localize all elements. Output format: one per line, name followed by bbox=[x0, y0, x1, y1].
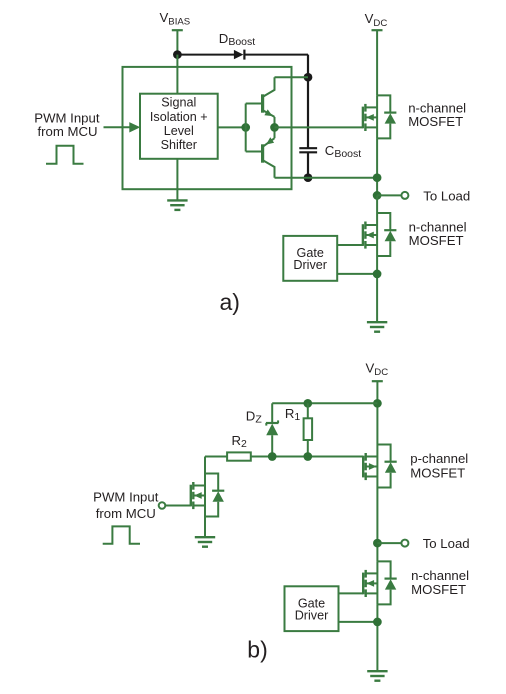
wire black D_Boost to corner bbox=[244, 54, 308, 56]
capacitor C_Boost bbox=[299, 148, 317, 152]
wire V_DC rail (a) bbox=[376, 30, 378, 95]
Q2 emitter bbox=[264, 127, 275, 146]
svg-text:R1: R1 bbox=[285, 406, 301, 423]
net label V_BIAS bbox=[160, 10, 191, 28]
wire black node to cap bbox=[307, 77, 309, 148]
wire gate driver to source node bbox=[337, 273, 377, 275]
label R1 bbox=[285, 406, 301, 423]
diode D_Boost bbox=[234, 50, 245, 60]
V_BIAS terminal bar bbox=[172, 29, 183, 31]
svg-text:DZ: DZ bbox=[246, 409, 263, 426]
label PWM Input from MCU (b) bbox=[93, 490, 159, 521]
junction dot M2 source bbox=[373, 270, 382, 279]
junction dot emitter node B bbox=[270, 123, 279, 132]
junction dot to-load node (a) bbox=[373, 191, 382, 200]
V_DC terminal bar (b) bbox=[372, 380, 383, 382]
wire M2 source to ground bbox=[376, 256, 378, 322]
label M2 n-channel MOSFET bbox=[409, 220, 467, 249]
mosfet M5 n-channel low-side (b) bbox=[363, 561, 397, 604]
svg-text:from MCU: from MCU bbox=[96, 506, 156, 521]
transistor Q1 NPN bar bbox=[261, 94, 264, 112]
pwm pulse symbol (b) bbox=[103, 526, 140, 543]
wire V_DC rail (b) bbox=[376, 381, 378, 444]
label R2 bbox=[232, 433, 248, 450]
svg-text:MOSFET: MOSFET bbox=[411, 582, 466, 597]
junction dot V_BIAS node bbox=[173, 50, 182, 59]
block gate driver (a) bbox=[283, 236, 337, 281]
wire R2 to M4 drain bbox=[204, 457, 206, 474]
resistor R2 bbox=[227, 452, 251, 460]
label D_Z bbox=[246, 409, 263, 426]
label b) bbox=[247, 637, 267, 663]
svg-text:VDC: VDC bbox=[365, 11, 388, 29]
Q1 collector bbox=[264, 77, 275, 96]
svg-text:To Load: To Load bbox=[423, 189, 470, 204]
label M1 n-channel MOSFET bbox=[408, 101, 466, 129]
Q2 collector bbox=[264, 161, 275, 178]
svg-text:VDC: VDC bbox=[366, 361, 389, 379]
svg-text:Signal: Signal bbox=[161, 96, 196, 110]
junction dot R1 top bbox=[303, 399, 312, 408]
svg-text:n-channel: n-channel bbox=[411, 568, 469, 583]
block U1 Signal Isolation + Level Shifter bbox=[140, 94, 218, 159]
junction dot to-load node (b) bbox=[373, 539, 382, 548]
wire M4 source to ground bbox=[204, 517, 206, 538]
junction dot M5 source bbox=[373, 618, 382, 627]
wire gate driver to M2 gate bbox=[337, 244, 363, 246]
wire PWM input (a) bbox=[104, 126, 131, 128]
label a) bbox=[220, 289, 240, 315]
wire M3 source to load rail bbox=[376, 488, 378, 562]
wire black to D_Boost bbox=[177, 54, 234, 56]
wire V_BIAS stub bbox=[176, 30, 178, 54]
svg-text:Level: Level bbox=[164, 124, 194, 138]
wire gate driver to M5 gate bbox=[339, 592, 364, 594]
label M3 p-channel MOSFET bbox=[410, 451, 468, 481]
label To Load (a) bbox=[423, 189, 470, 204]
block gate driver (b) bbox=[285, 586, 339, 631]
svg-text:MOSFET: MOSFET bbox=[410, 466, 465, 481]
svg-text:To Load: To Load bbox=[423, 536, 470, 551]
wire gate row (b) bbox=[205, 456, 363, 458]
wire boost bottom to source rail bbox=[308, 177, 377, 179]
svg-text:DBoost: DBoost bbox=[219, 31, 255, 48]
wire M5 source to ground bbox=[376, 604, 378, 671]
ground main (a) bbox=[367, 322, 387, 332]
svg-text:PWM Input: PWM Input bbox=[93, 490, 159, 505]
wire V_BIAS to U1 bbox=[176, 55, 178, 94]
transistor Q2 PNP bar bbox=[261, 144, 264, 162]
net label V_DC (b) bbox=[366, 361, 389, 379]
svg-text:Isolation +: Isolation + bbox=[150, 110, 208, 124]
mosfet M3 p-channel high-side bbox=[363, 445, 397, 488]
wire gate driver to M5 source node bbox=[339, 621, 378, 623]
junction dot DZ anode bbox=[268, 452, 277, 461]
svg-text:MOSFET: MOSFET bbox=[409, 233, 464, 248]
svg-text:Driver: Driver bbox=[293, 258, 327, 272]
svg-text:from MCU: from MCU bbox=[37, 124, 97, 139]
junction dot boost bottom bbox=[304, 173, 313, 182]
ground main (b) bbox=[367, 671, 387, 681]
wire to load stub (b) bbox=[377, 542, 401, 544]
svg-text:a): a) bbox=[220, 289, 240, 315]
svg-text:Shifter: Shifter bbox=[161, 138, 197, 152]
arrowhead into U1 bbox=[129, 122, 140, 132]
Q1 emitter bbox=[264, 109, 275, 127]
label To Load (b) bbox=[423, 536, 470, 551]
wire Q2 collector to boost bottom bbox=[275, 177, 309, 179]
mosfet M2 n-channel low-side (a) bbox=[363, 213, 397, 256]
V_DC terminal bar (a) bbox=[372, 29, 383, 31]
svg-text:CBoost: CBoost bbox=[325, 143, 361, 160]
terminal circle To Load (a) bbox=[401, 192, 408, 199]
wire load node to M2 bbox=[376, 195, 378, 213]
wire black cap to bottom node bbox=[307, 152, 309, 177]
pwm pulse symbol (a) bbox=[46, 146, 84, 164]
label M5 n-channel MOSFET bbox=[411, 568, 469, 597]
junction dot base node A bbox=[241, 123, 250, 132]
wire U1 bottom to ground bbox=[176, 159, 178, 201]
wire NPN base bbox=[246, 103, 262, 105]
wire base rail bbox=[245, 104, 247, 152]
wire black down to C_Boost node bbox=[307, 55, 309, 78]
net label V_DC (a) bbox=[365, 11, 388, 29]
junction dot source node (a) bbox=[373, 173, 382, 182]
svg-text:p-channel: p-channel bbox=[410, 451, 468, 466]
zener diode D_Z bbox=[266, 403, 279, 456]
svg-text:b): b) bbox=[247, 637, 267, 663]
svg-text:MOSFET: MOSFET bbox=[408, 114, 463, 129]
mosfet M4 n-channel signal bbox=[191, 474, 225, 517]
outer isolation box bbox=[123, 67, 292, 189]
junction dot VDC node (b) bbox=[373, 399, 382, 408]
wire M1 source to load rail bbox=[376, 138, 378, 195]
mosfet M1 n-channel high-side bbox=[363, 95, 397, 138]
wire U1 output to base node bbox=[218, 126, 246, 128]
wire top row to R1/DZ bbox=[272, 402, 377, 404]
wire PWM circle to M4 gate bbox=[165, 505, 191, 507]
ground M4 bbox=[195, 537, 215, 547]
label C_Boost bbox=[325, 143, 361, 160]
terminal circle PWM gate (b) bbox=[159, 502, 166, 509]
label PWM Input from MCU (a) bbox=[34, 110, 100, 139]
junction dot boost top bbox=[304, 73, 313, 82]
ground U1 bbox=[167, 200, 187, 210]
wire Q1 collector to boost top bbox=[275, 76, 309, 78]
resistor R1 bbox=[304, 403, 313, 456]
junction dot R1 bottom bbox=[303, 452, 312, 461]
wire to load stub (a) bbox=[377, 194, 402, 196]
svg-text:VBIAS: VBIAS bbox=[160, 10, 191, 28]
terminal circle To Load (b) bbox=[401, 540, 408, 547]
svg-text:R2: R2 bbox=[232, 433, 248, 450]
wire emitters to M1 gate bbox=[275, 126, 363, 128]
wire PNP base bbox=[246, 151, 262, 153]
label D_Boost bbox=[219, 31, 255, 48]
svg-text:Driver: Driver bbox=[295, 608, 329, 622]
